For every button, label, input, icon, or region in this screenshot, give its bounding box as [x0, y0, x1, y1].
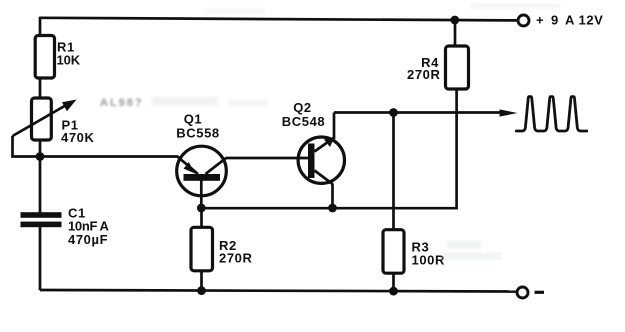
terminal: +V supply: [518, 15, 529, 26]
junction dot: P1 wiper node: [36, 152, 45, 161]
transistor Q2: [298, 137, 344, 184]
wire: Q1 base lead down: [200, 181, 203, 209]
svg-text:270R: 270R: [407, 67, 440, 82]
resistor R4: [446, 46, 469, 89]
svg-text:BC548: BC548: [282, 114, 325, 129]
junction dot: Q2 emitter node: [328, 204, 337, 213]
junction dot: output node at R3 top: [389, 108, 398, 117]
wire: emitter/base bus at y208 to R4: [201, 89, 456, 208]
svg-text:270R: 270R: [219, 250, 252, 265]
wire: R4 top lead: [454, 20, 457, 47]
wire: output line to arrow: [334, 111, 501, 114]
junction dot: R3 to ground rail: [389, 287, 398, 296]
junction dot: R4 to +V rail: [450, 16, 459, 25]
wire: P1 wiper return: [13, 136, 41, 157]
faint scan artifacts: [100, 3, 560, 260]
wire: Q2 emitter drop: [331, 184, 334, 209]
wire: bottom ground rail: [40, 290, 517, 292]
svg-text:BC558: BC558: [176, 126, 219, 141]
wire: Q1 collector to Q2 base: [226, 157, 309, 160]
wire: R3 top lead from output node: [392, 113, 395, 231]
svg-text:AL98?: AL98?: [100, 97, 144, 109]
label minus terminal: [535, 291, 545, 294]
svg-text:470K: 470K: [61, 130, 94, 145]
wire: R3 bottom lead: [392, 273, 395, 291]
svg-text:Q1: Q1: [184, 112, 203, 127]
resistor R1: [35, 36, 54, 79]
svg-text:Q2: Q2: [293, 100, 312, 115]
wire: Q2 collector riser: [333, 113, 336, 140]
wire: left branch vertical (R1/P1/C1 chain): [39, 17, 42, 290]
wire: R2 leads: [200, 208, 203, 291]
resistor R2: [191, 227, 213, 270]
transistor Q1: [177, 146, 227, 196]
capacitor C1: [21, 212, 62, 227]
terminal: ground: [517, 287, 528, 298]
waveform: pulse train: [516, 97, 587, 131]
wire: top +V supply rail: [40, 18, 517, 21]
output arrowhead: [500, 109, 518, 116]
potentiometer P1: [13, 98, 77, 140]
svg-text:100R: 100R: [412, 252, 445, 267]
wire: node to Q1 emitter: [40, 155, 178, 158]
svg-text:470µF: 470µF: [68, 232, 108, 247]
junction dot: R2 to ground rail: [197, 286, 206, 295]
resistor R3: [383, 230, 404, 274]
junction dot: Q1 base / R2 node: [197, 204, 206, 213]
svg-text:10K: 10K: [57, 53, 81, 68]
